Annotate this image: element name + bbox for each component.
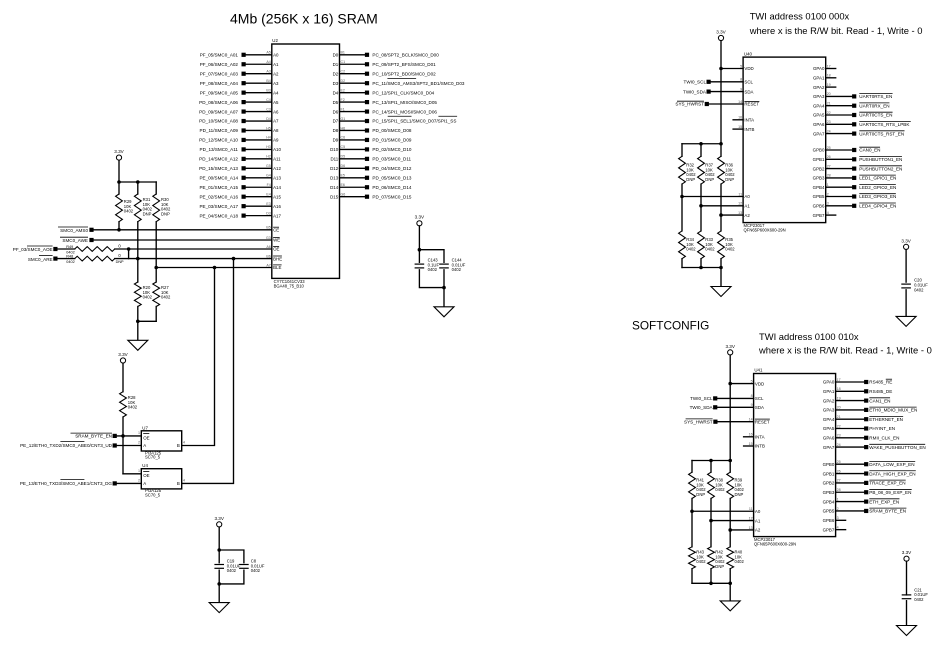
wire A2 row U41 xyxy=(730,529,753,531)
svg-text:15: 15 xyxy=(738,125,742,129)
wire R39 bottom lead xyxy=(729,499,731,530)
svg-text:PF_09/SMC0_A05: PF_09/SMC0_A05 xyxy=(200,90,239,95)
svg-text:CAN1_EN: CAN1_EN xyxy=(869,398,890,403)
svg-text:A12: A12 xyxy=(273,166,281,171)
overline UART0RTS_EN xyxy=(859,93,892,95)
node ETH_EXP_EN xyxy=(864,500,868,504)
svg-text:2: 2 xyxy=(138,441,140,445)
svg-text:GPA7: GPA7 xyxy=(813,131,825,136)
svg-text:DNP: DNP xyxy=(116,260,124,264)
svg-text:0402: 0402 xyxy=(251,568,261,573)
node PF_07/SMC0_A03 xyxy=(242,72,246,76)
svg-text:C6: C6 xyxy=(341,136,346,140)
wire PD_12/SMC0_A10 to A9 xyxy=(246,139,272,141)
wire 3.3V to R28 xyxy=(122,363,124,392)
resistor R31 xyxy=(134,194,141,222)
wire U41 pullup rail xyxy=(692,460,730,462)
svg-text:PD_11/SMC0_A09: PD_11/SMC0_A09 xyxy=(200,128,239,133)
svg-text:A0: A0 xyxy=(273,53,279,58)
wire R30 to BLE xyxy=(155,222,157,268)
wire U41 GPA0 xyxy=(836,381,865,383)
wire 3.3V to C21 xyxy=(906,561,908,595)
svg-text:4: 4 xyxy=(183,478,185,482)
wire A2 row U40 xyxy=(721,214,743,216)
svg-text:GPB7: GPB7 xyxy=(823,527,835,532)
svg-text:3: 3 xyxy=(827,202,829,206)
wire R37 bottom lead xyxy=(700,184,702,206)
svg-text:GPB6: GPB6 xyxy=(813,204,825,209)
svg-text:B: B xyxy=(177,443,180,448)
wire D11 to PD_03/SMC0_D11 xyxy=(340,158,366,160)
node UART0CTS_EN xyxy=(852,113,856,117)
svg-text:PE_00/SMC0_A14: PE_00/SMC0_A14 xyxy=(199,175,238,180)
svg-text:DNP: DNP xyxy=(735,492,744,497)
svg-text:B5: B5 xyxy=(266,226,270,230)
svg-text:23: 23 xyxy=(827,120,831,124)
power 3.3V C143 xyxy=(417,221,422,226)
wire U40 gnd rail xyxy=(682,267,721,269)
svg-text:TWI0_SCL: TWI0_SCL xyxy=(690,396,713,401)
node UART0CTS_RST_EN xyxy=(852,132,856,136)
node PD_12/SMC0_A10 xyxy=(242,138,246,142)
svg-text:PD_09/SMC0_A07: PD_09/SMC0_A07 xyxy=(199,109,238,114)
node PF_06/SMC0_A02 xyxy=(242,62,246,66)
svg-text:H2: H2 xyxy=(266,155,271,159)
svg-text:GPB1: GPB1 xyxy=(813,157,825,162)
wire GPA7 xyxy=(826,133,852,135)
overline UART0RX_EN xyxy=(859,102,889,104)
junction C143 rail xyxy=(418,248,422,252)
overline SMC0_AMS0 xyxy=(58,226,88,228)
node PE_01/SMC0_A15 xyxy=(242,185,246,189)
wire R43 top lead xyxy=(691,511,693,547)
overline CAN0_EN xyxy=(859,146,880,148)
svg-text:3.3V: 3.3V xyxy=(415,215,425,220)
node PF_09/SMC0_A05 xyxy=(242,91,246,95)
svg-text:17: 17 xyxy=(827,64,831,68)
svg-text:D13: D13 xyxy=(330,175,339,180)
wire GPA3 xyxy=(826,95,852,97)
svg-text:A5: A5 xyxy=(273,100,279,105)
svg-text:F4: F4 xyxy=(267,183,271,187)
svg-text:A16: A16 xyxy=(273,204,281,209)
svg-text:8: 8 xyxy=(751,394,753,398)
wire SYS_HWRST xyxy=(709,103,743,105)
wire U41 GPB2 xyxy=(836,482,865,484)
junction rail R38 xyxy=(709,459,713,463)
svg-text:PUSHBUTTON2_EN: PUSHBUTTON2_EN xyxy=(859,166,902,171)
svg-text:A8: A8 xyxy=(273,128,279,133)
svg-text:U7: U7 xyxy=(142,425,148,430)
svg-text:20: 20 xyxy=(837,406,841,410)
svg-text:UART0RTS_EN: UART0RTS_EN xyxy=(859,94,892,99)
svg-text:DNP: DNP xyxy=(161,211,170,216)
node RS485_RE xyxy=(864,380,868,384)
resistor R43 xyxy=(689,547,696,569)
svg-text:A3: A3 xyxy=(273,81,279,86)
overline PB_08_09_EXP_EN xyxy=(869,488,911,490)
svg-text:GPA2: GPA2 xyxy=(823,398,835,403)
svg-text:A1: A1 xyxy=(755,518,761,523)
wire U41 gnd rail xyxy=(692,582,730,584)
node ETH0_MDIO_MUX_EN xyxy=(864,408,868,412)
svg-text:PD_01/SMC0_D09: PD_01/SMC0_D09 xyxy=(372,138,412,143)
resistor R41 xyxy=(689,472,696,498)
junction A1 U40 xyxy=(699,204,703,208)
wire R31 to BHE xyxy=(137,222,139,259)
node SRAM_BYTE_EN xyxy=(113,434,117,438)
svg-text:PF_05/SMC0_A01: PF_05/SMC0_A01 xyxy=(200,53,239,58)
overline SMC0_ARE xyxy=(39,255,53,257)
svg-text:A2: A2 xyxy=(744,213,750,218)
ic U41 body xyxy=(754,374,836,537)
overline SMC0_AWE xyxy=(60,236,88,238)
overline U4 OE xyxy=(143,470,149,472)
svg-text:27: 27 xyxy=(837,479,841,483)
overline UART0CTS_RST_EN xyxy=(859,130,904,132)
wire GPB1 xyxy=(826,158,852,160)
wire A1 row U40 xyxy=(701,205,743,207)
svg-text:QFN65P600X600-29N: QFN65P600X600-29N xyxy=(744,228,786,233)
node TRACE_EXP_EN xyxy=(864,481,868,485)
power 3.3V sram pullups xyxy=(116,155,121,160)
wire U41 GPB3 xyxy=(836,491,865,493)
resistor R37 xyxy=(698,156,705,184)
svg-text:PF_07/SMC0_A03: PF_07/SMC0_A03 xyxy=(200,71,239,76)
svg-text:3.3V: 3.3V xyxy=(214,516,224,521)
svg-text:R49: R49 xyxy=(66,245,73,249)
wire GPA4 xyxy=(826,105,852,107)
resistor R49 xyxy=(75,247,115,252)
svg-text:LED2_GPIO2_EN: LED2_GPIO2_EN xyxy=(859,185,896,190)
power 3.3V C19 xyxy=(217,522,222,527)
wire R39 top lead xyxy=(729,461,731,473)
overline ETH_EXP_EN xyxy=(869,498,899,500)
node PE_00/SMC0_A14 xyxy=(242,176,246,180)
ground C143 C144 xyxy=(434,307,454,317)
overline SYS_HWRST U41 xyxy=(686,418,713,420)
resistor R34 xyxy=(679,231,686,259)
overline CE xyxy=(273,226,279,228)
svg-text:PD_05/SMC0_D13: PD_05/SMC0_D13 xyxy=(372,175,412,180)
node TWI0_SCL U41 xyxy=(713,396,717,400)
junction rail R36 xyxy=(719,142,723,146)
svg-text:A7: A7 xyxy=(273,119,279,124)
svg-text:GPB1: GPB1 xyxy=(823,471,835,476)
wire INTA stub xyxy=(733,119,743,121)
svg-text:PUSHBUTTON1_EN: PUSHBUTTON1_EN xyxy=(859,157,902,162)
svg-text:U41: U41 xyxy=(754,368,763,373)
node CAN0_EN xyxy=(852,148,856,152)
svg-text:17: 17 xyxy=(837,378,841,382)
node PD_07/SMC0_D15 xyxy=(365,195,369,199)
svg-text:22: 22 xyxy=(837,424,841,428)
wire to ground U41 xyxy=(729,583,731,601)
svg-text:D10: D10 xyxy=(330,147,339,152)
node CAN1_EN xyxy=(864,399,868,403)
wire TWI0_SDA U41 xyxy=(717,406,753,408)
svg-text:A4: A4 xyxy=(266,60,270,64)
capacitor C19 xyxy=(214,564,224,566)
wire C21 to ground xyxy=(906,601,908,626)
wire D7 to PC_15/SPI1_SEL1/SMC0_D07/SPI1_SS xyxy=(340,120,366,122)
wire R38 top lead xyxy=(710,461,712,473)
svg-text:GPB5: GPB5 xyxy=(813,194,825,199)
svg-text:RESET: RESET xyxy=(744,102,759,107)
wire GPB5 xyxy=(826,196,852,198)
wire D0 to PC_08/SPT2_BCLK/SMC0_D00 xyxy=(340,54,366,56)
junction A1 U41 xyxy=(709,519,713,523)
wire SMC0_AMS0 to CE xyxy=(94,229,272,231)
node SMC0_ARE xyxy=(53,257,57,261)
wire R34 bottom lead xyxy=(681,259,683,268)
junction rail R39 xyxy=(728,459,732,463)
junction R28 OE xyxy=(121,434,125,438)
svg-text:14: 14 xyxy=(738,100,742,104)
svg-text:PD_15/SMC0_A13: PD_15/SMC0_A13 xyxy=(199,166,238,171)
wire TWI0_SCL U41 xyxy=(717,397,753,399)
wire U41 GPB1 xyxy=(836,473,865,475)
svg-text:D5: D5 xyxy=(333,100,339,105)
buffer U4 body xyxy=(141,469,181,489)
svg-text:0402: 0402 xyxy=(914,597,924,602)
svg-text:SC70_5: SC70_5 xyxy=(145,493,161,498)
svg-text:R48: R48 xyxy=(66,255,73,259)
wire GPA6 xyxy=(826,123,852,125)
wire PE_03/SMC0_A17 to A16 xyxy=(246,205,272,207)
wire A0 row U41 xyxy=(692,510,754,512)
junction gnd rail R42 xyxy=(709,582,713,586)
wire INTB stub xyxy=(733,128,743,130)
ground sram pulldowns xyxy=(128,340,148,350)
wire SRAM_BYTE_EN to U7 OE xyxy=(117,435,142,437)
svg-text:2: 2 xyxy=(827,192,829,196)
svg-text:U40: U40 xyxy=(744,51,753,56)
svg-text:TWI address 0100 000x: TWI address 0100 000x xyxy=(750,11,850,22)
wire D14 to PD_06/SMC0_D14 xyxy=(340,186,366,188)
wire SYS_HWRST U41 xyxy=(718,421,754,423)
svg-text:PHYINT_EN: PHYINT_EN xyxy=(869,426,895,431)
overline SMC0_ABE0 xyxy=(60,441,84,443)
svg-text:GPA3: GPA3 xyxy=(813,94,825,99)
wire R40 bottom lead xyxy=(729,569,731,584)
junction R30 BLE xyxy=(154,266,158,270)
svg-text:26: 26 xyxy=(837,469,841,473)
svg-text:DNP: DNP xyxy=(725,177,734,182)
svg-text:PC_09/SPT2_BFS/SMC0_D01: PC_09/SPT2_BFS/SMC0_D01 xyxy=(372,62,436,67)
svg-text:WAKE_PUSHBUTTON_EN: WAKE_PUSHBUTTON_EN xyxy=(869,445,925,450)
wire U41 GPA2 xyxy=(836,400,865,402)
svg-text:RS485_DE: RS485_DE xyxy=(869,389,892,394)
overline BLE xyxy=(273,264,282,266)
svg-text:GPA4: GPA4 xyxy=(823,417,835,422)
wire PD_08/SMC0_A06 to A5 xyxy=(246,101,272,103)
svg-text:D11: D11 xyxy=(330,157,338,162)
svg-text:UART0CTS_RTS_LPBK: UART0CTS_RTS_LPBK xyxy=(859,122,910,127)
capacitor C20 xyxy=(901,283,911,285)
svg-text:DNP: DNP xyxy=(143,211,152,216)
svg-text:A11: A11 xyxy=(273,157,281,162)
wire GPA2 stub xyxy=(826,86,836,88)
svg-text:SYS_HWRST: SYS_HWRST xyxy=(684,419,713,424)
svg-text:D4: D4 xyxy=(266,117,271,121)
svg-text:SMC0_AWE: SMC0_AWE xyxy=(62,238,88,243)
resistor R33 xyxy=(698,231,705,259)
wire R37 top lead xyxy=(700,144,702,157)
junction A0 U40 xyxy=(680,195,684,199)
svg-text:0402: 0402 xyxy=(161,295,171,300)
svg-text:27: 27 xyxy=(827,164,831,168)
wire U41 GPA7 xyxy=(836,446,865,448)
svg-text:TWI0_SCL: TWI0_SCL xyxy=(684,80,707,85)
power 3.3V R28 xyxy=(120,358,125,363)
svg-text:C4: C4 xyxy=(266,98,271,102)
svg-text:PD_14/SMC0_A12: PD_14/SMC0_A12 xyxy=(199,157,238,162)
svg-text:21: 21 xyxy=(837,415,841,419)
ground C20 xyxy=(896,316,916,326)
svg-text:RMII_CLK_EN: RMII_CLK_EN xyxy=(869,436,899,441)
svg-text:25: 25 xyxy=(827,146,831,150)
overline LED2_GPIO2_EN xyxy=(859,183,896,185)
svg-text:12: 12 xyxy=(749,516,753,520)
svg-text:PC_12/SPI1_CLK/SMC0_D04: PC_12/SPI1_CLK/SMC0_D04 xyxy=(372,90,434,95)
wire 3.3V to C143 xyxy=(418,226,420,262)
node PD_09/SMC0_A07 xyxy=(242,109,246,113)
svg-text:GPA5: GPA5 xyxy=(823,426,835,431)
svg-text:H5: H5 xyxy=(266,126,271,130)
wire D3 to PC_11/SMC0_AMS3/SPT2_BD1/SMC0_D03 xyxy=(340,82,366,84)
node PE_13 xyxy=(113,481,117,485)
resistor R40 xyxy=(727,547,734,569)
node PB_08_09_EXP_EN xyxy=(864,490,868,494)
svg-text:B4: B4 xyxy=(266,79,270,83)
svg-text:TRACE_EXP_EN: TRACE_EXP_EN xyxy=(869,481,905,486)
wire pullup rail xyxy=(119,181,156,183)
wire R28 to OE net xyxy=(122,417,124,474)
node TWI0_SCL xyxy=(707,80,711,84)
overline DATA_HIGH_EXP_EN xyxy=(869,470,915,472)
wire PF_09/SMC0_A05 to A4 xyxy=(246,92,272,94)
svg-text:INTA: INTA xyxy=(744,118,754,123)
wire U41 GPA6 xyxy=(836,437,865,439)
wire R41 top lead xyxy=(691,461,693,473)
junction C19 rail xyxy=(217,548,221,552)
wire A0 row U40 xyxy=(682,196,743,198)
node PC_10/SPT2_BD0/SMC0_D02 xyxy=(365,72,369,76)
overline OE xyxy=(273,245,279,247)
wire R49 to OE xyxy=(115,248,272,250)
node DATA_LOW_EXP_EN xyxy=(864,462,868,466)
svg-text:SDA: SDA xyxy=(755,405,764,410)
svg-text:GPB0: GPB0 xyxy=(813,148,825,153)
svg-text:0402: 0402 xyxy=(686,247,696,252)
svg-text:U4: U4 xyxy=(142,463,148,468)
svg-text:0402: 0402 xyxy=(715,487,725,492)
svg-text:A17: A17 xyxy=(273,213,281,218)
node LED4_GPIO4_EN xyxy=(852,204,856,208)
ground U40 resistors xyxy=(711,287,731,297)
wire R48 stub up xyxy=(128,249,130,259)
node PC_09/SPT2_BFS/SMC0_D01 xyxy=(365,62,369,66)
overline SPI1_SEL1 xyxy=(388,115,412,117)
svg-text:E2: E2 xyxy=(341,88,345,92)
wire U41 GPA4 xyxy=(836,418,865,420)
svg-text:TWI address 0100 010x: TWI address 0100 010x xyxy=(759,331,859,342)
svg-text:D14: D14 xyxy=(330,185,339,190)
svg-text:A15: A15 xyxy=(273,194,281,199)
node PUSHBUTTON2_EN xyxy=(852,167,856,171)
wire C144 to ground xyxy=(443,270,445,307)
node PUSHBUTTON1_EN xyxy=(852,157,856,161)
overline WE xyxy=(273,236,280,238)
svg-text:E3: E3 xyxy=(266,202,270,206)
svg-text:GPA0: GPA0 xyxy=(813,66,825,71)
svg-text:GPA1: GPA1 xyxy=(823,389,835,394)
svg-text:4: 4 xyxy=(183,441,185,445)
overline UART0CTS_EN xyxy=(859,111,892,113)
svg-text:12: 12 xyxy=(738,202,742,206)
svg-text:TWI0_SDA: TWI0_SDA xyxy=(683,89,707,94)
wire D4 to PC_12/SPI1_CLK/SMC0_D04 xyxy=(340,92,366,94)
wire GPB4 xyxy=(826,186,852,188)
wire rail to C144 xyxy=(419,250,444,263)
svg-text:0402: 0402 xyxy=(725,247,735,252)
overline PUSHBUTTON2_EN xyxy=(859,165,902,167)
svg-text:4Mb (256K x 16) SRAM: 4Mb (256K x 16) SRAM xyxy=(230,11,378,27)
svg-text:5: 5 xyxy=(740,64,742,68)
svg-text:DNP: DNP xyxy=(686,177,695,182)
wire R42 top lead xyxy=(710,521,712,547)
ic U40 body xyxy=(743,57,826,223)
wire GPB3 xyxy=(826,177,852,179)
junction U40 VDD xyxy=(719,67,723,71)
node PE_04/SMC0_A18 xyxy=(242,214,246,218)
svg-text:20: 20 xyxy=(827,92,831,96)
wire VDD xyxy=(721,68,743,70)
svg-text:LED3_GPIO3_EN: LED3_GPIO3_EN xyxy=(859,194,896,199)
wire PE_13 to U4 A xyxy=(117,482,142,484)
wire D10 to PD_02/SMC0_D10 xyxy=(340,148,366,150)
svg-text:4: 4 xyxy=(837,525,839,529)
svg-text:GPA5: GPA5 xyxy=(813,113,825,118)
wire 3.3V to C20 xyxy=(905,250,907,283)
wire PE_02/SMC0_A16 to A15 xyxy=(246,196,272,198)
svg-text:A6: A6 xyxy=(266,245,270,249)
wire BLE to R27 xyxy=(155,268,157,283)
svg-text:A0: A0 xyxy=(755,509,761,514)
wire PE_01/SMC0_A15 to A14 xyxy=(246,186,272,188)
svg-text:PC_08/SPT2_BCLK/SMC0_D00: PC_08/SPT2_BCLK/SMC0_D00 xyxy=(372,53,439,58)
ground C21 xyxy=(897,626,917,636)
svg-text:PE_13/ETH0_TXD3/SMC0_ABE1/CNT3: PE_13/ETH0_TXD3/SMC0_ABE1/CNT3_DG xyxy=(20,481,113,486)
svg-text:CAN0_EN: CAN0_EN xyxy=(859,148,880,153)
junction C19 gnd rail xyxy=(217,582,221,586)
wire U40 pullup rail xyxy=(682,143,721,145)
wire R42 bottom lead xyxy=(710,569,712,584)
svg-text:A2: A2 xyxy=(755,528,761,533)
svg-text:A9: A9 xyxy=(273,138,279,143)
svg-text:F2: F2 xyxy=(341,98,345,102)
node PE_03/SMC0_A17 xyxy=(242,204,246,208)
node RMII_CLK_EN xyxy=(864,436,868,440)
wire U7 B to BLE xyxy=(182,268,215,446)
overline UART0CTS_RTS_LPBK xyxy=(859,121,910,123)
resistor R27 xyxy=(153,282,160,307)
node PD_05/SMC0_D13 xyxy=(365,176,369,180)
junction A0 U41 xyxy=(690,509,694,513)
svg-text:OE: OE xyxy=(273,247,279,252)
svg-text:GPB3: GPB3 xyxy=(823,490,835,495)
